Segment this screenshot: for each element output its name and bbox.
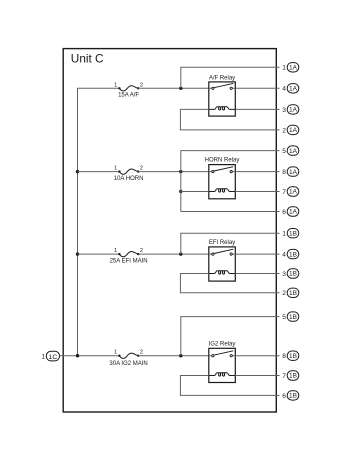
svg-text:6: 6 [282,209,286,216]
svg-text:1: 1 [114,350,117,356]
node C coil feed U2 [179,190,182,193]
node D contact feed U3 [179,252,182,255]
svg-text:1A: 1A [289,209,298,216]
wire relay U1 contact out to pin 4-1A [235,87,279,89]
svg-text:6: 6 [282,393,286,400]
pin 4 connector 1B [282,249,299,258]
wire node E up to pin 5-1B [181,317,280,356]
wire node B up to pin 5-1A [181,151,280,212]
pin 1 connector 1B [282,229,299,238]
svg-text:2: 2 [140,82,143,88]
wire relay U3 contact out to pin 4-1B [235,253,279,255]
node B contact feed U2 [179,170,182,173]
svg-text:1: 1 [114,82,117,88]
svg-text:1B: 1B [289,353,297,360]
wire relay U1 coil right to pin 3-1A [235,108,279,110]
svg-text:1A: 1A [289,65,298,72]
pin 2 connector 1A [282,125,299,134]
wire relay U2 coil right to pin 7-1A [235,191,279,193]
svg-text:2: 2 [282,127,286,134]
svg-text:1: 1 [41,354,45,361]
svg-text:1B: 1B [289,314,297,321]
svg-text:25A EFI MAIN: 25A EFI MAIN [110,259,148,265]
wire relay U2 contact out to pin 8-1A [235,171,279,173]
wire from connector 1C to fuse F4 [60,355,120,357]
fuse F2 10A HORN [114,166,144,183]
wire relay U1 coil left loop to pin 2-1A [180,109,279,129]
svg-text:IG2 Relay: IG2 Relay [209,341,236,347]
wire node A up to pin 1-1A [181,67,280,88]
svg-text:1A: 1A [289,127,298,134]
svg-text:1B: 1B [289,230,297,237]
pin 7 connector 1B [282,371,299,380]
svg-text:10A HORN: 10A HORN [114,176,144,182]
node E contact feed U4 [179,354,182,357]
svg-text:7: 7 [282,189,286,196]
svg-text:1B: 1B [289,251,297,258]
wire relay U4 coil left loop to pin 6-1B [180,376,279,396]
svg-text:A/F Relay: A/F Relay [209,75,235,81]
node A contact feed U1 [179,87,182,90]
pin 4 connector 1A [282,84,299,93]
svg-text:1A: 1A [289,107,298,114]
pin 3 connector 1B [282,269,299,278]
pin 6 connector 1A [282,207,299,216]
svg-text:1A: 1A [289,169,298,176]
wire relay U2 coil left to node C [181,191,209,193]
node bus-row2 junction [76,170,79,173]
svg-text:1A: 1A [289,189,298,196]
relay U3 EFI Relay [209,240,236,281]
svg-text:8: 8 [282,169,286,176]
wire vertical bus [77,88,79,355]
svg-text:1: 1 [282,231,286,238]
wire node C down to pin 6-1A [181,211,280,213]
svg-text:1: 1 [114,166,117,172]
svg-text:30A IG2 MAIN: 30A IG2 MAIN [109,361,147,367]
svg-text:2: 2 [140,248,143,254]
pin 5 connector 1A [282,146,299,155]
svg-text:3: 3 [282,271,286,278]
wire fuse F2 to relay U2 [138,171,209,173]
svg-text:3: 3 [282,107,286,114]
pin 1 connector 1A [282,63,299,72]
fuse F1 15A A/F [114,82,143,98]
pin 8 connector 1B [282,351,299,360]
pin 6 connector 1B [282,391,299,400]
wire fuse F4 to relay U4 [138,355,209,357]
svg-text:1A: 1A [289,86,298,93]
svg-text:1A: 1A [289,148,298,155]
svg-text:5: 5 [282,314,286,321]
wire bus to fuse F1 [78,87,120,90]
svg-text:15A A/F: 15A A/F [118,93,139,99]
wire bus to fuse F3 [78,253,120,255]
fuse F4 30A IG2 MAIN [109,350,147,367]
junction block Unit C outline [63,49,276,412]
svg-text:7: 7 [282,373,286,380]
wire fuse F1 to relay U1 [138,87,209,89]
node bus-row3 junction [76,252,79,255]
relay U1 A/F Relay [209,75,236,116]
svg-text:8: 8 [282,353,286,360]
wire relay U3 coil right to pin 3-1B [235,273,279,275]
wire fuse F3 to relay U3 [138,253,209,255]
pin 3 connector 1A [282,105,299,114]
node bus-row4 junction [76,354,79,357]
svg-text:HORN Relay: HORN Relay [205,157,240,163]
svg-text:1: 1 [114,248,117,254]
svg-text:1B: 1B [289,373,297,380]
svg-text:4: 4 [282,251,286,258]
pin 5 connector 1B [282,312,299,321]
wire relay U4 contact out to pin 8-1B [235,355,279,357]
svg-text:5: 5 [282,148,286,155]
relay U2 HORN Relay [205,157,240,199]
svg-text:2: 2 [140,350,143,356]
svg-text:2: 2 [140,166,143,172]
svg-text:4: 4 [282,86,286,93]
pin 2 connector 1B [282,288,299,297]
wire relay U4 coil right to pin 7-1B [235,375,279,377]
wire bus to fuse F2 [78,171,120,173]
fuse F3 25A EFI MAIN [110,248,148,265]
pin 8 connector 1A [282,167,299,176]
svg-text:2: 2 [282,290,286,297]
svg-text:1B: 1B [289,271,297,278]
connector 1C pin 1 [41,351,59,361]
wire node D up to pin 1-1B [181,233,280,254]
pin 7 connector 1A [282,187,299,196]
relay U4 IG2 Relay [209,341,236,382]
svg-text:1B: 1B [289,393,297,400]
svg-text:Unit C: Unit C [71,52,104,66]
svg-text:1C: 1C [49,354,58,361]
svg-text:EFI Relay: EFI Relay [209,240,235,246]
svg-text:1B: 1B [289,290,297,297]
wire relay U3 coil left loop to pin 2-1B [180,274,279,293]
svg-text:1: 1 [282,65,286,72]
